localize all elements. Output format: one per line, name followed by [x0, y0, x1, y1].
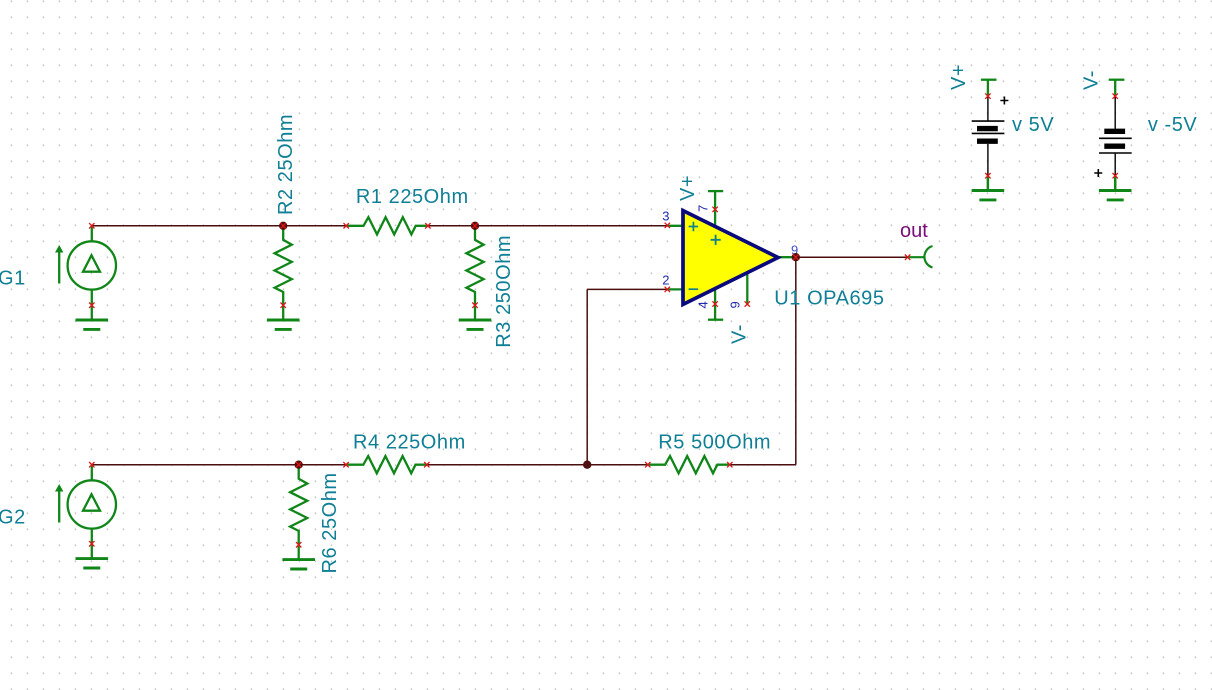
op-amp - input polarity — [689, 288, 699, 290]
connection point battery V1 minus — [985, 173, 990, 178]
battery V2 — [1094, 96, 1131, 177]
ground below G2 — [76, 544, 109, 568]
connection point R3 bottom — [472, 303, 477, 308]
wire top-right: R1 to opamp pin3 — [428, 225, 667, 227]
U1 pin 2 stub (- input) — [667, 288, 684, 290]
current source G2 — [55, 465, 116, 544]
U1 pin 7 stub (V+ supply) — [714, 191, 716, 228]
svg-text:R5 500Ohm: R5 500Ohm — [658, 432, 771, 454]
wire output vertical — [795, 257, 797, 465]
connection point output node — [793, 255, 798, 260]
svg-text:R1 225Ohm: R1 225Ohm — [356, 186, 469, 208]
svg-text:7: 7 — [696, 205, 711, 212]
svg-text:R4 225Ohm: R4 225Ohm — [353, 432, 466, 454]
wire R5 to output corner — [730, 464, 796, 466]
ground below battery2 — [1099, 176, 1132, 200]
ground below G1 — [76, 305, 109, 329]
resistor R2 — [275, 226, 292, 305]
connection point R5 right — [727, 462, 732, 467]
resistor R6 — [290, 465, 307, 544]
connection point R4 right — [424, 462, 429, 467]
junction node feedback — [583, 461, 591, 469]
svg-text:V+: V+ — [948, 64, 970, 90]
battery V1 — [972, 96, 1009, 176]
svg-text:v 5V: v 5V — [1012, 114, 1054, 136]
svg-text:V-: V- — [1080, 70, 1102, 90]
wire pin2 horizontal — [587, 288, 667, 290]
power flag V+ battery1 — [981, 80, 997, 96]
svg-text:R2 25Ohm: R2 25Ohm — [275, 114, 297, 215]
op-amp U1 pins — [667, 191, 796, 320]
connection point U1 pin 4 — [712, 301, 717, 306]
wire top-left: G1 to R1 — [92, 225, 346, 227]
ground below R3 — [459, 305, 492, 329]
junction node R6 top — [295, 461, 303, 469]
wire feedback vertical — [586, 289, 588, 464]
op-amp teal plus — [711, 235, 721, 245]
connection point U1 pin 9 — [745, 301, 750, 306]
connection point R4 left — [343, 462, 348, 467]
junction node R2 top — [279, 222, 287, 230]
svg-text:V-: V- — [729, 324, 751, 344]
wire output horizontal — [796, 256, 908, 258]
junction node R3 top — [471, 222, 479, 230]
connection point R1 left — [344, 223, 349, 228]
svg-text:G1: G1 — [0, 267, 26, 289]
current source G1 — [55, 226, 116, 305]
svg-text:2: 2 — [662, 273, 669, 288]
connection point R5 left — [645, 462, 650, 467]
connection point out port — [905, 255, 910, 260]
op-amp U1 triangle — [683, 211, 778, 305]
resistor R1 — [346, 217, 428, 234]
battery2 ground stub — [1114, 176, 1116, 190]
resistor R5 — [648, 456, 730, 473]
svg-text:V+: V+ — [677, 175, 699, 201]
connection point battery V1 plus — [985, 93, 990, 98]
wire bottom-left: G2 to R4 — [92, 464, 346, 466]
svg-text:R3 250Ohm: R3 250Ohm — [493, 235, 515, 348]
U1 pin 4 stub (V- supply) — [714, 286, 716, 320]
ground below R2 — [267, 305, 300, 329]
power flag V- battery2 — [1109, 80, 1125, 96]
connection point R6 bottom — [296, 542, 301, 547]
junction node output — [792, 253, 800, 261]
op-amp + input polarity — [689, 222, 699, 231]
U1 output stub — [777, 256, 796, 258]
svg-text:4: 4 — [696, 301, 711, 308]
connection point U1 pin 7 — [712, 207, 717, 212]
connection point battery V2 bottom — [1113, 173, 1118, 178]
resistor R3 — [466, 226, 483, 305]
connection x-marks — [89, 93, 1118, 547]
connection point R1 right — [425, 223, 430, 228]
svg-text:out: out — [900, 220, 928, 242]
ground below battery1 — [972, 176, 1005, 200]
connection point node R2 top — [281, 223, 286, 228]
WIRES — [92, 226, 908, 465]
connection point U1 pin 3 — [665, 223, 670, 228]
connection point G1 top — [89, 223, 94, 228]
U1 pin 7 power bar — [708, 190, 723, 192]
svg-text:3: 3 — [662, 209, 669, 224]
battery1 ground stub — [987, 176, 989, 190]
svg-text:R6 25Ohm: R6 25Ohm — [319, 472, 341, 573]
svg-text:v -5V: v -5V — [1148, 114, 1198, 136]
connection point node R3 top — [472, 223, 477, 228]
ground below R6 — [282, 545, 315, 569]
connection point R2 bottom — [281, 303, 286, 308]
svg-text:U1 OPA695: U1 OPA695 — [774, 287, 884, 309]
wire bottom-mid: R4 to R5 — [427, 464, 648, 466]
U1 pin 9 stub — [746, 271, 748, 304]
U1 pin 3 stub (+ input) — [667, 225, 684, 227]
connection point G2 top — [89, 462, 94, 467]
connection point G1 bottom — [89, 303, 94, 308]
output port out — [908, 246, 933, 268]
connection point battery V2 top — [1113, 93, 1118, 98]
resistor R4 — [346, 456, 428, 473]
svg-text:G2: G2 — [0, 506, 26, 528]
svg-text:9: 9 — [728, 301, 743, 308]
connection point U1 pin 2 — [665, 287, 670, 292]
U1 pin 4 power bar — [708, 319, 723, 321]
connection point node R6 top — [296, 462, 301, 467]
connection point G2 bottom — [89, 541, 94, 546]
